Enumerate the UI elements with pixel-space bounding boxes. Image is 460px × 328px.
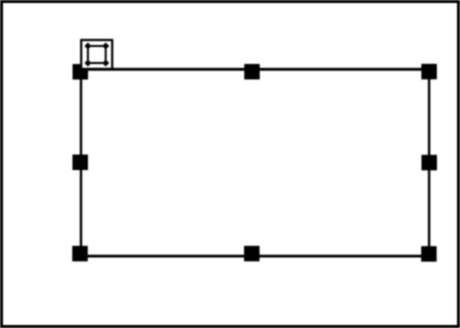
- handle middle-left: [72, 155, 88, 171]
- tool icon inner square top line: [85, 45, 109, 47]
- frame bottom edge: [80, 255, 431, 258]
- handle middle-right: [421, 155, 437, 171]
- tool icon corner dot bottom-left: [86, 61, 90, 65]
- frame left edge: [80, 68, 82, 258]
- tool icon corner dot top-left: [86, 44, 90, 48]
- frame right edge: [428, 68, 430, 258]
- tool icon inner square right line: [105, 43, 107, 66]
- handle top-middle: [244, 64, 260, 79]
- handle bottom-right: [421, 246, 437, 262]
- handle top-left: [73, 64, 89, 80]
- tool icon box (white box over top-left corner): [81, 40, 112, 69]
- selected object frame interior: [82, 71, 428, 255]
- handle bottom-left: [72, 246, 88, 262]
- handle bottom-middle: [244, 246, 259, 262]
- handle top-right: [421, 64, 437, 80]
- tool icon corner dot top-right: [104, 44, 108, 48]
- tool icon corner dot bottom-right: [104, 61, 108, 65]
- tool icon inner square bottom line: [85, 62, 109, 64]
- frame top edge: [80, 68, 431, 71]
- tool icon inner square left line: [87, 43, 89, 66]
